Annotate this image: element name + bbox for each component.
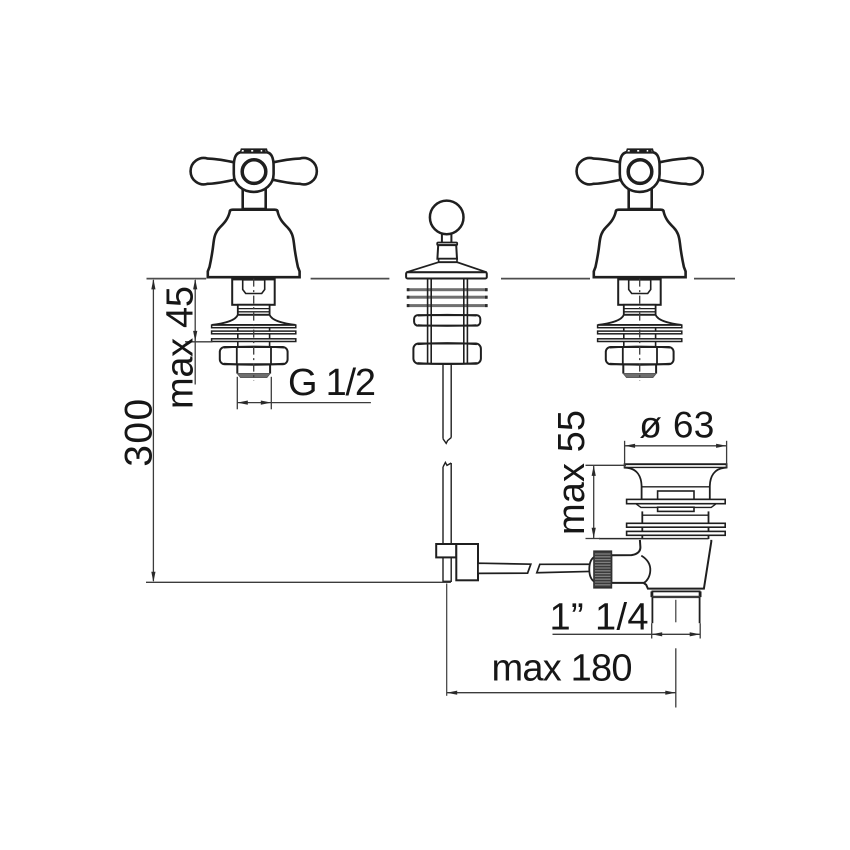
right valve flare washer [598, 315, 682, 325]
big hex nut [413, 344, 481, 364]
flange plate 1 [627, 499, 726, 503]
knurled knob [594, 551, 611, 588]
dimension: max 55 [551, 410, 626, 539]
handle top cap [240, 149, 267, 152]
handle hub [234, 152, 274, 192]
dimension: max 45 [160, 279, 213, 409]
svg-text:max 180: max 180 [492, 647, 633, 689]
spacer plate 2 [407, 296, 488, 299]
right tap handle [577, 149, 703, 277]
right handle bell base [594, 210, 686, 278]
svg-text:ø 63: ø 63 [639, 404, 714, 445]
tail walls [651, 597, 653, 623]
rod tail below clamp [443, 557, 451, 581]
step [439, 259, 457, 262]
body bottom edge [599, 538, 709, 540]
svg-text:max 45: max 45 [160, 286, 202, 409]
right arm lobe [270, 158, 317, 184]
bell base [208, 210, 300, 278]
clamp big block [456, 544, 478, 580]
wall between plates [237, 328, 239, 347]
right valve hex nut [606, 347, 674, 364]
right handle left arm [577, 158, 624, 184]
ball neck [442, 232, 452, 243]
valve mid neck [238, 305, 270, 315]
svg-text:300: 300 [118, 399, 161, 467]
pop-up rod assembly [406, 201, 594, 582]
right handle ring [628, 160, 652, 184]
body walls [641, 511, 643, 539]
stub chamfer band [237, 373, 270, 377]
tail centre line [675, 600, 677, 623]
right valve washer plate 1 [598, 325, 682, 328]
funnel top [625, 464, 727, 499]
inner arc [641, 556, 650, 583]
plug upper [658, 491, 694, 499]
hex nut [220, 347, 288, 364]
dimension: diameter 63 [625, 404, 727, 467]
threaded stub [236, 364, 238, 373]
left valve body below deck [212, 279, 296, 381]
right handle hub [620, 152, 660, 192]
spacer plate 1 [407, 288, 488, 291]
washer plate 3 [212, 339, 296, 342]
left tap handle [191, 149, 317, 277]
knob end cap [589, 557, 594, 582]
right valve cartridge block [618, 279, 661, 304]
tail collar [652, 591, 699, 597]
right valve washer plate 3 [598, 339, 682, 342]
right valve body below deck [598, 279, 682, 381]
dimension: max 180 [447, 584, 676, 708]
small hex nut [414, 315, 480, 326]
flare cone [406, 262, 487, 272]
right valve stub chamfer band [623, 373, 656, 377]
washer plate 2 [212, 331, 296, 334]
right handle right arm [656, 158, 703, 184]
right valve cartridge key [629, 280, 651, 294]
cartridge block [232, 279, 275, 304]
svg-text:max 55: max 55 [551, 410, 593, 535]
dimension: G 1/2 [237, 362, 376, 409]
escutcheon plate [406, 272, 487, 278]
horizontal link rod right piece [537, 564, 595, 573]
right handle top cap [626, 149, 653, 152]
left arm lobe [191, 158, 238, 184]
cartridge inner key [243, 280, 265, 294]
flange plate 2 [627, 523, 726, 527]
upper block lip [437, 243, 457, 246]
handle stem [243, 188, 266, 209]
plug lower [658, 507, 694, 511]
drain waste assembly [589, 464, 726, 623]
clamp small block [436, 544, 456, 557]
svg-text:G 1/2: G 1/2 [288, 362, 376, 404]
flare washer [212, 315, 296, 325]
under-plate taper [636, 504, 716, 508]
handle ring [242, 160, 266, 184]
pull rod lower [443, 462, 451, 544]
right valve threaded stub [622, 364, 624, 373]
centre line [253, 279, 255, 381]
right valve mid neck [624, 305, 656, 315]
washer plate 1 [212, 325, 296, 328]
flange plate 3 [627, 531, 726, 535]
ball knob [430, 201, 464, 235]
spacer plate 3 [407, 304, 488, 307]
right valve centre line [639, 279, 641, 381]
right handle stem [629, 188, 652, 209]
surface line [147, 278, 736, 280]
svg-text:1” 1/4: 1” 1/4 [550, 596, 649, 638]
dimension: 300 [118, 279, 451, 582]
right valve wall between plates [623, 328, 625, 347]
right valve washer plate 2 [598, 331, 682, 334]
pull rod upper [443, 364, 451, 444]
upper block [437, 245, 457, 259]
lower body [611, 540, 711, 589]
horizontal link rod left piece [478, 563, 531, 573]
dimension: 1" 1/4 [550, 596, 701, 638]
lift rods [428, 279, 468, 364]
